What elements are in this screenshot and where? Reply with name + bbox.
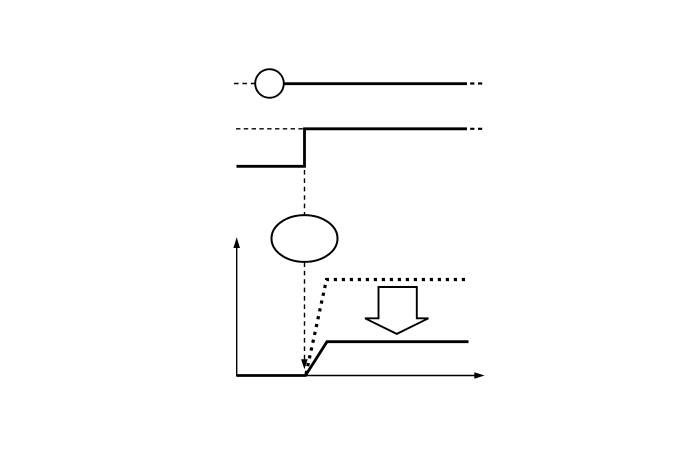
wire: horizontal axis of graph xyxy=(236,372,485,379)
node: open circle (summing point) xyxy=(255,69,284,98)
node: ellipse (process block) xyxy=(272,215,338,262)
wire: thick setpoint line xyxy=(284,82,467,85)
wire: thick dotted response curve (without compensation) xyxy=(306,280,467,375)
wire: dashed upper-left level of step xyxy=(236,128,304,130)
wire: thick solid response curve (with compensation) xyxy=(237,342,469,376)
node: dashed-line arrowhead at axis xyxy=(301,359,308,369)
wire: dashed continuation right of setpoint line xyxy=(470,82,483,84)
wire: dashed lead-in left of circle xyxy=(234,83,255,85)
wire: vertical axis of graph xyxy=(233,237,240,375)
wire: dashed continuation right of step top xyxy=(470,128,483,130)
node: hollow block arrow pointing down xyxy=(365,287,428,334)
wire: thick step input signal xyxy=(237,129,468,167)
wire: dashed vertical drop line from step edge xyxy=(304,170,306,360)
